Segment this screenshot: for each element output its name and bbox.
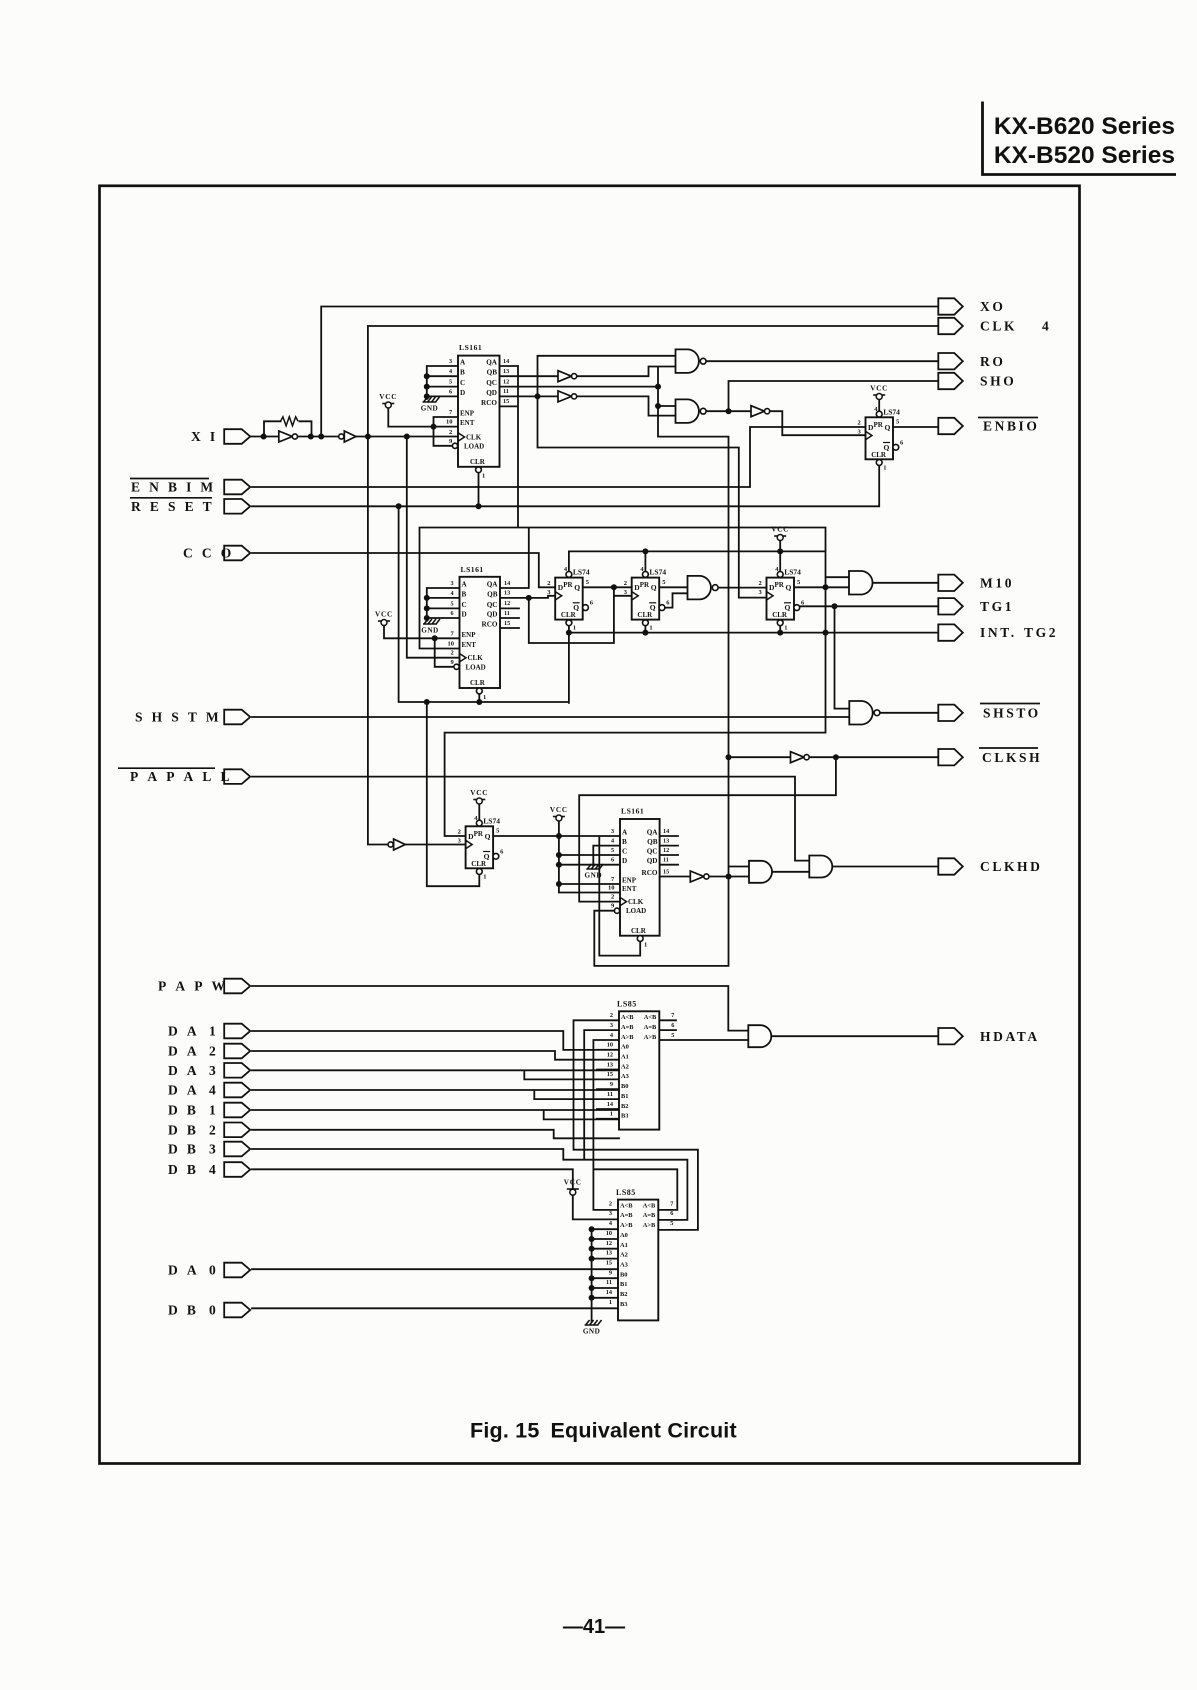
svg-text:TG1: TG1: [980, 599, 1014, 614]
svg-text:1: 1: [649, 625, 652, 632]
svg-text:D: D: [622, 857, 627, 865]
svg-text:QB: QB: [487, 369, 498, 377]
svg-text:ENP: ENP: [460, 410, 475, 418]
svg-text:QD: QD: [487, 611, 498, 619]
svg-text:VCC: VCC: [771, 526, 789, 534]
svg-text:QB: QB: [487, 590, 498, 598]
svg-text:XO: XO: [980, 299, 1005, 314]
svg-text:D A: D A: [168, 1083, 200, 1098]
svg-text:LOAD: LOAD: [466, 663, 486, 671]
svg-text:QB: QB: [647, 838, 658, 846]
svg-text:PR: PR: [874, 421, 884, 429]
svg-text:PR: PR: [474, 830, 484, 838]
svg-text:B0: B0: [621, 1083, 628, 1090]
svg-text:1: 1: [209, 1024, 216, 1039]
svg-text:13: 13: [504, 590, 510, 597]
svg-text:CLK: CLK: [628, 898, 644, 906]
svg-text:INT.: INT.: [980, 625, 1017, 640]
svg-text:ENP: ENP: [462, 631, 477, 639]
svg-text:1: 1: [784, 625, 787, 632]
svg-text:3: 3: [609, 1210, 612, 1217]
svg-text:2: 2: [451, 650, 454, 657]
svg-text:4: 4: [1042, 319, 1049, 334]
svg-text:CLKSH: CLKSH: [982, 750, 1042, 765]
svg-text:CLK: CLK: [468, 654, 484, 662]
svg-text:A<B: A<B: [644, 1014, 657, 1021]
svg-text:A: A: [622, 829, 628, 837]
svg-text:11: 11: [606, 1279, 612, 1286]
svg-text:A<B: A<B: [620, 1202, 633, 1209]
svg-text:KX-B620 Series: KX-B620 Series: [994, 113, 1175, 140]
svg-text:14: 14: [663, 828, 669, 835]
svg-text:LS74: LS74: [784, 568, 801, 577]
svg-text:B0: B0: [620, 1271, 627, 1278]
svg-text:CLKHD: CLKHD: [980, 859, 1043, 874]
svg-text:3: 3: [209, 1142, 216, 1157]
svg-text:6: 6: [671, 1022, 674, 1029]
svg-text:M10: M10: [980, 575, 1014, 590]
svg-text:1: 1: [482, 473, 485, 480]
svg-text:—41—: —41—: [563, 1616, 625, 1638]
svg-text:14: 14: [607, 1101, 614, 1108]
svg-text:10: 10: [448, 641, 455, 648]
svg-text:4: 4: [451, 590, 454, 597]
svg-text:D: D: [468, 832, 474, 841]
svg-text:A=B: A=B: [643, 1212, 656, 1219]
svg-text:KX-B520 Series: KX-B520 Series: [994, 142, 1175, 169]
svg-text:D: D: [460, 389, 465, 397]
svg-text:A0: A0: [620, 1232, 628, 1239]
svg-text:4: 4: [611, 838, 614, 845]
svg-text:Fig. 15 Equivalent Circuit: Fig. 15 Equivalent Circuit: [470, 1419, 737, 1443]
svg-text:A1: A1: [621, 1054, 629, 1061]
svg-text:D A: D A: [168, 1263, 200, 1278]
svg-text:VCC: VCC: [379, 393, 397, 401]
svg-text:Q: Q: [574, 583, 580, 592]
svg-text:A>B: A>B: [643, 1222, 656, 1229]
svg-text:14: 14: [503, 358, 509, 365]
svg-text:P A P W: P A P W: [158, 979, 228, 994]
svg-text:C C O: C C O: [183, 546, 234, 561]
svg-text:6: 6: [449, 388, 452, 395]
svg-text:ENT: ENT: [460, 419, 475, 427]
svg-text:LS85: LS85: [617, 1000, 637, 1009]
svg-text:D B: D B: [168, 1162, 199, 1177]
svg-text:7: 7: [671, 1012, 674, 1019]
svg-text:D B: D B: [168, 1103, 199, 1118]
svg-text:4: 4: [209, 1162, 216, 1177]
svg-text:1: 1: [573, 625, 576, 632]
svg-text:VCC: VCC: [870, 385, 888, 393]
svg-text:1: 1: [644, 942, 647, 949]
svg-text:C: C: [462, 601, 467, 609]
svg-text:CLK: CLK: [980, 319, 1017, 334]
svg-text:LS74: LS74: [883, 407, 900, 416]
svg-text:15: 15: [503, 398, 509, 405]
svg-text:0: 0: [209, 1263, 216, 1278]
svg-text:D: D: [462, 611, 467, 619]
svg-text:5: 5: [449, 379, 452, 386]
svg-text:B1: B1: [620, 1281, 627, 1288]
svg-text:12: 12: [606, 1240, 612, 1247]
svg-text:LOAD: LOAD: [464, 442, 484, 450]
svg-text:LS74: LS74: [649, 568, 666, 577]
svg-text:QD: QD: [486, 389, 497, 397]
svg-text:QD: QD: [647, 857, 658, 865]
svg-text:C: C: [460, 379, 465, 387]
svg-text:CLR: CLR: [471, 860, 487, 868]
svg-text:11: 11: [504, 610, 510, 617]
svg-text:X I: X I: [191, 429, 218, 444]
svg-text:QA: QA: [486, 359, 498, 367]
svg-text:D B: D B: [168, 1122, 199, 1137]
svg-text:1: 1: [483, 873, 486, 880]
svg-text:GND: GND: [585, 872, 602, 880]
svg-text:QC: QC: [647, 848, 658, 856]
svg-text:LS74: LS74: [573, 568, 590, 577]
svg-text:B3: B3: [621, 1113, 628, 1120]
svg-text:1: 1: [483, 694, 486, 701]
svg-text:7: 7: [670, 1200, 673, 1207]
svg-text:C: C: [622, 848, 627, 856]
svg-text:2: 2: [624, 580, 627, 587]
svg-text:2: 2: [609, 1200, 612, 1207]
svg-text:15: 15: [504, 620, 510, 627]
svg-text:2: 2: [449, 429, 452, 436]
svg-text:D A: D A: [168, 1024, 200, 1039]
svg-text:QC: QC: [486, 379, 497, 387]
svg-text:6: 6: [611, 857, 614, 864]
svg-text:A<B: A<B: [643, 1202, 656, 1209]
svg-text:B: B: [462, 590, 467, 598]
svg-text:VCC: VCC: [550, 806, 568, 814]
svg-text:14: 14: [504, 580, 510, 587]
svg-text:B3: B3: [620, 1301, 627, 1308]
svg-text:13: 13: [503, 368, 509, 375]
svg-text:2: 2: [209, 1044, 216, 1059]
svg-text:B: B: [622, 838, 627, 846]
svg-text:PR: PR: [775, 581, 785, 589]
svg-text:B1: B1: [621, 1093, 628, 1100]
svg-text:A2: A2: [621, 1063, 629, 1070]
svg-text:2: 2: [611, 894, 614, 901]
svg-text:5: 5: [670, 1220, 673, 1227]
svg-text:B2: B2: [620, 1291, 627, 1298]
svg-text:11: 11: [663, 857, 669, 864]
svg-text:2: 2: [209, 1122, 216, 1137]
svg-text:QA: QA: [647, 829, 659, 837]
svg-text:3: 3: [449, 358, 452, 365]
svg-text:P A P A L L: P A P A L L: [130, 769, 233, 784]
svg-text:LS161: LS161: [621, 807, 644, 816]
svg-text:D A: D A: [168, 1063, 200, 1078]
svg-text:ENBIO: ENBIO: [983, 419, 1040, 434]
svg-text:CLK: CLK: [466, 434, 482, 442]
svg-text:13: 13: [607, 1061, 613, 1068]
svg-text:QC: QC: [487, 601, 498, 609]
svg-text:A3: A3: [621, 1073, 629, 1080]
svg-text:D B: D B: [168, 1142, 199, 1157]
svg-text:VCC: VCC: [470, 789, 488, 797]
svg-text:4: 4: [449, 368, 452, 375]
svg-text:RCO: RCO: [642, 869, 658, 877]
svg-text:LOAD: LOAD: [626, 907, 646, 915]
svg-text:D: D: [769, 583, 775, 592]
svg-text:14: 14: [606, 1289, 613, 1296]
svg-text:15: 15: [606, 1260, 612, 1267]
svg-text:CLR: CLR: [772, 611, 788, 619]
svg-text:CLR: CLR: [637, 611, 653, 619]
svg-text:VCC: VCC: [375, 611, 393, 619]
svg-text:HDATA: HDATA: [980, 1029, 1040, 1044]
svg-text:A3: A3: [620, 1262, 628, 1269]
svg-text:B2: B2: [621, 1103, 628, 1110]
svg-text:LS161: LS161: [459, 343, 482, 352]
svg-text:9: 9: [609, 1269, 612, 1276]
svg-text:CLR: CLR: [871, 451, 887, 459]
svg-text:D: D: [558, 583, 564, 592]
svg-text:2: 2: [858, 420, 861, 427]
svg-text:13: 13: [663, 837, 669, 844]
svg-text:3: 3: [451, 580, 454, 587]
svg-text:D: D: [634, 583, 640, 592]
svg-text:2: 2: [610, 1012, 613, 1019]
svg-text:ENT: ENT: [622, 885, 637, 893]
svg-text:LS74: LS74: [483, 816, 500, 825]
svg-text:13: 13: [606, 1250, 612, 1257]
svg-text:A=B: A=B: [620, 1212, 633, 1219]
svg-text:R E S E T: R E S E T: [131, 499, 215, 514]
svg-text:10: 10: [446, 419, 453, 426]
svg-text:RCO: RCO: [482, 621, 498, 629]
svg-text:3: 3: [209, 1063, 216, 1078]
svg-text:SHSTO: SHSTO: [983, 705, 1041, 720]
svg-text:5: 5: [611, 847, 614, 854]
svg-text:CLR: CLR: [561, 611, 577, 619]
svg-text:LS161: LS161: [461, 565, 484, 574]
svg-text:E N B I M: E N B I M: [131, 480, 216, 495]
svg-text:1: 1: [883, 464, 886, 471]
svg-text:Q: Q: [651, 583, 657, 592]
svg-text:10: 10: [608, 885, 615, 892]
svg-text:2: 2: [458, 829, 461, 836]
svg-text:10: 10: [606, 1230, 612, 1237]
svg-text:11: 11: [503, 388, 509, 395]
svg-text:5: 5: [451, 600, 454, 607]
svg-text:5: 5: [671, 1032, 674, 1039]
svg-text:A1: A1: [620, 1242, 628, 1249]
svg-text:2: 2: [547, 580, 550, 587]
svg-text:12: 12: [607, 1052, 613, 1059]
svg-text:6: 6: [670, 1210, 673, 1217]
svg-text:PR: PR: [640, 581, 650, 589]
svg-text:15: 15: [663, 868, 669, 875]
svg-text:A=B: A=B: [644, 1024, 657, 1031]
svg-text:A=B: A=B: [621, 1024, 634, 1031]
svg-text:1: 1: [609, 1299, 612, 1306]
svg-text:A<B: A<B: [621, 1014, 634, 1021]
svg-text:4: 4: [209, 1083, 216, 1098]
svg-text:GND: GND: [583, 1328, 600, 1336]
svg-text:A>B: A>B: [620, 1222, 633, 1229]
svg-text:B: B: [460, 369, 465, 377]
svg-text:3: 3: [610, 1022, 613, 1029]
svg-text:0: 0: [209, 1303, 216, 1318]
svg-text:ENP: ENP: [622, 877, 637, 885]
svg-text:GND: GND: [421, 627, 438, 635]
svg-text:TG2: TG2: [1024, 625, 1058, 640]
svg-text:VCC: VCC: [564, 1179, 582, 1187]
svg-text:2: 2: [759, 580, 762, 587]
svg-text:3: 3: [611, 828, 614, 835]
svg-text:11: 11: [607, 1091, 613, 1098]
svg-text:1: 1: [209, 1103, 216, 1118]
svg-text:S H S T M: S H S T M: [135, 710, 222, 725]
svg-text:QA: QA: [487, 581, 499, 589]
svg-text:A>B: A>B: [621, 1034, 634, 1041]
svg-text:A2: A2: [620, 1252, 628, 1259]
svg-text:PR: PR: [563, 581, 573, 589]
svg-text:A: A: [462, 581, 468, 589]
svg-text:A: A: [460, 359, 466, 367]
svg-text:GND: GND: [421, 405, 438, 413]
svg-text:D A: D A: [168, 1044, 200, 1059]
svg-text:Q: Q: [786, 583, 792, 592]
svg-text:A>B: A>B: [644, 1034, 657, 1041]
svg-text:12: 12: [663, 847, 669, 854]
svg-text:D: D: [868, 423, 874, 432]
svg-text:10: 10: [607, 1042, 613, 1049]
svg-text:ENT: ENT: [462, 641, 477, 649]
svg-text:A0: A0: [621, 1044, 629, 1051]
svg-text:12: 12: [503, 378, 509, 385]
svg-text:D B: D B: [168, 1303, 199, 1318]
svg-text:CLR: CLR: [470, 679, 486, 687]
svg-text:6: 6: [451, 610, 454, 617]
svg-text:Q: Q: [885, 423, 891, 432]
svg-text:LS85: LS85: [616, 1188, 636, 1197]
svg-text:RCO: RCO: [481, 399, 497, 407]
svg-text:SHO: SHO: [980, 374, 1016, 389]
svg-text:CLR: CLR: [631, 927, 647, 935]
svg-text:9: 9: [610, 1081, 613, 1088]
svg-text:RO: RO: [980, 354, 1005, 369]
svg-text:1: 1: [610, 1111, 613, 1118]
svg-text:Q: Q: [485, 832, 491, 841]
svg-text:15: 15: [607, 1071, 613, 1078]
svg-text:CLR: CLR: [470, 458, 486, 466]
svg-text:12: 12: [504, 600, 510, 607]
